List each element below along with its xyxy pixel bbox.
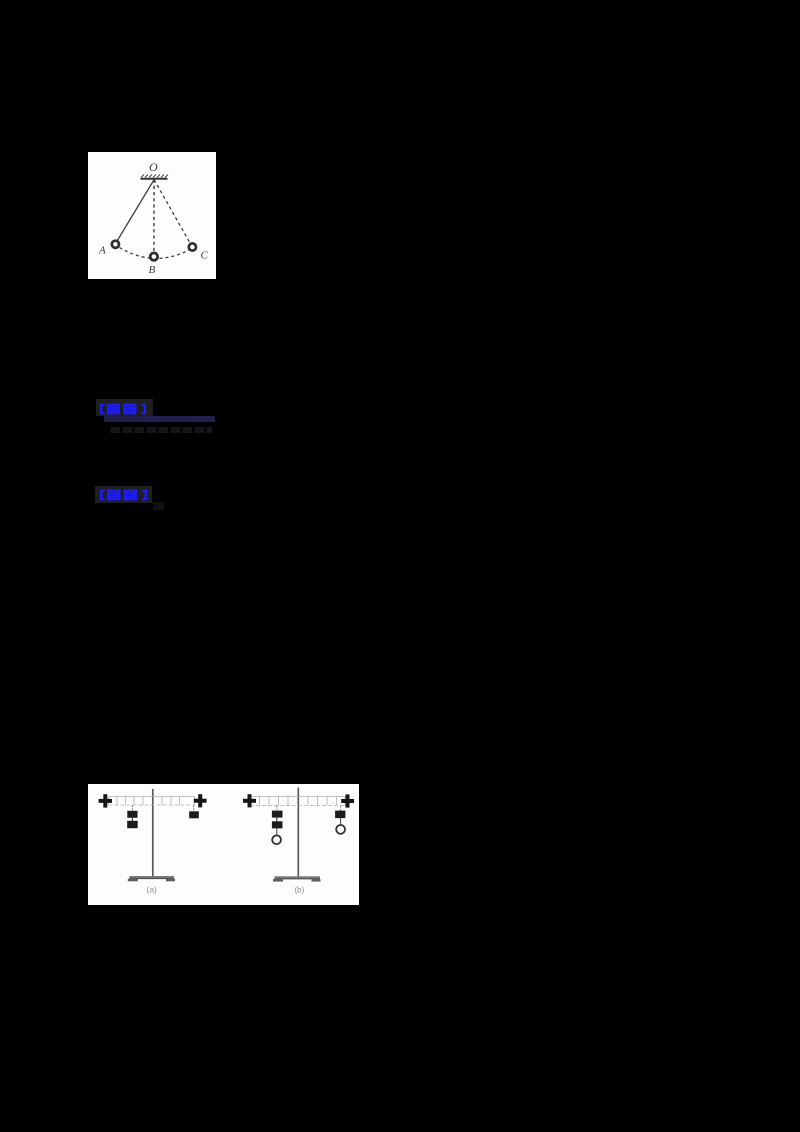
ceiling bar	[141, 178, 168, 180]
stand (b) base	[275, 876, 321, 879]
stand (b) beam ruler	[250, 796, 345, 805]
stand (a) left clamp plus	[99, 794, 112, 807]
svg-text:(b): (b)	[295, 886, 305, 895]
stand (a) beam ruler	[109, 797, 195, 806]
svg-text:O: O	[149, 160, 158, 174]
stand (b) right foot	[312, 879, 321, 882]
link 1 faint second row	[111, 427, 212, 433]
arc A-B-C dashed	[120, 248, 190, 259]
stand (b) left weight 2	[272, 821, 283, 828]
link 1 highlight box	[96, 399, 153, 416]
link 2 highlight box	[95, 486, 152, 503]
stand (a) left weight 1	[127, 811, 137, 818]
wire O-A solid	[117, 180, 154, 242]
ball C	[189, 243, 196, 250]
stand (b) weight link	[276, 818, 278, 822]
stand (b) pole	[297, 788, 299, 878]
svg-text:A: A	[98, 245, 106, 257]
ball B	[150, 253, 157, 260]
stand (b) right ring	[336, 825, 345, 834]
stand (a) right weight	[189, 811, 199, 818]
stand (a) right hanger wire	[193, 805, 195, 811]
svg-text:(a): (a)	[147, 885, 158, 895]
pendulum figure panel	[88, 152, 216, 279]
stand (a) left foot	[128, 879, 138, 882]
stand (b) left foot	[273, 879, 283, 882]
wire O-C dashed	[154, 180, 190, 243]
stand (b) left hanger wire	[276, 806, 278, 811]
stand (a) right foot	[166, 879, 175, 882]
stand (b) left weight 1	[272, 811, 283, 818]
link 2 faint trailing glyph	[153, 502, 164, 510]
stand (b) right hanger wire	[340, 806, 342, 811]
stand (b) ring link right	[340, 818, 342, 824]
wire O-B dashed	[153, 180, 155, 252]
stand (a) right clamp plus	[194, 794, 207, 807]
ceiling hatching	[141, 175, 168, 178]
stand (a) left hanger wire	[131, 805, 133, 811]
stand (a) left weight 2	[127, 821, 138, 828]
svg-text:B: B	[149, 264, 156, 276]
link 1 underline bar	[104, 416, 215, 422]
stand (a) base	[129, 876, 174, 879]
ball A	[112, 241, 119, 248]
stand (b) left clamp plus	[243, 794, 256, 807]
link 2 blue label	[100, 488, 147, 506]
stand (b) right weight	[335, 811, 345, 819]
stand (a) pole	[152, 789, 154, 877]
stand (b) left ring	[272, 835, 281, 844]
link 1 blue label	[100, 402, 146, 420]
stand (b) ring link	[276, 828, 278, 834]
stand (b) right clamp plus	[341, 794, 354, 807]
stand (a) weight link	[131, 818, 133, 821]
balance figure panel	[88, 784, 359, 905]
svg-text:C: C	[201, 250, 209, 262]
